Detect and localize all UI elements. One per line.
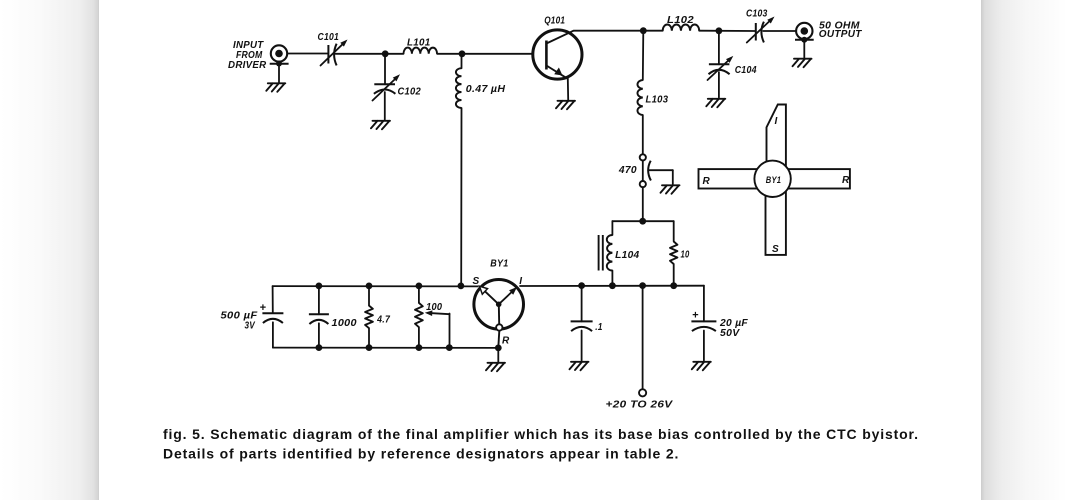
BY1 I lead arrow xyxy=(499,293,512,305)
wire to 1000 cap xyxy=(318,286,320,314)
junction bus .1 cap xyxy=(578,282,585,289)
wire node down to C102 xyxy=(384,54,386,85)
terminal +20 TO 26V xyxy=(639,389,646,396)
capacitor 470 feedthrough xyxy=(640,154,646,160)
wire bias bottom bus xyxy=(273,347,498,349)
resistor 4.7 xyxy=(365,306,373,329)
arrow of C102 xyxy=(373,80,395,101)
wire R10 bottom xyxy=(673,264,675,286)
BY1 R lead xyxy=(498,304,500,324)
wire C103 to output jack xyxy=(763,30,796,32)
svg-text:C104: C104 xyxy=(735,65,757,76)
wire L102 to C103 xyxy=(699,30,755,32)
wire wiper to bottom bus xyxy=(449,314,451,348)
svg-text:DRIVER: DRIVER xyxy=(228,60,267,71)
wire choke to bias bus xyxy=(460,108,462,286)
junction node C102 tap xyxy=(382,50,389,57)
inductor 0.47 uH choke xyxy=(456,68,462,108)
wire R4.7 to bottom bus xyxy=(368,328,370,347)
junction bus +20V feed xyxy=(639,282,646,289)
svg-text:I: I xyxy=(774,116,777,127)
arrow of C104 xyxy=(708,61,728,80)
svg-text:+: + xyxy=(260,302,267,314)
svg-text:I: I xyxy=(519,276,522,287)
capacitor .1 xyxy=(571,320,593,322)
junction 1000 top xyxy=(316,283,323,290)
junction bus R10 xyxy=(670,282,677,289)
junction 100 top xyxy=(416,283,423,290)
svg-text:C103: C103 xyxy=(746,9,768,20)
BY1 package: top lead tab (I) xyxy=(767,105,786,181)
BY1 package: horizontal bar (R leads) xyxy=(699,169,850,188)
ground C470 xyxy=(661,185,680,194)
connector J1 input coax jack xyxy=(271,45,287,61)
inductor L104 xyxy=(607,235,613,271)
svg-text:C101: C101 xyxy=(318,32,340,43)
L104 core bars xyxy=(598,235,600,271)
junction node E xyxy=(639,218,646,225)
svg-text:R: R xyxy=(842,175,850,186)
BY1 S lead xyxy=(481,288,499,305)
svg-text:0.47 µH: 0.47 µH xyxy=(466,84,506,95)
wire node C down to L103 xyxy=(642,31,645,80)
junction BY1 R to bus xyxy=(495,345,502,352)
junction 100 bottom xyxy=(416,344,423,351)
resistor 100 (variable) xyxy=(415,303,423,327)
svg-text:4.7: 4.7 xyxy=(376,315,390,326)
wire 1000 to bottom bus xyxy=(318,323,320,347)
wire L103 to C470 xyxy=(642,115,644,155)
inductor L103 xyxy=(637,80,642,115)
wire node B to Q101 base xyxy=(462,53,533,55)
ground input jack xyxy=(266,83,285,92)
junction 1000 bottom xyxy=(316,344,323,351)
svg-text:1000: 1000 xyxy=(332,318,357,329)
resistor 10 xyxy=(670,242,677,265)
junction bus L104 xyxy=(609,282,616,289)
svg-text:+: + xyxy=(692,310,699,322)
Q101 emitter arrow xyxy=(546,66,567,79)
svg-text:S: S xyxy=(473,276,480,287)
wire R lead to ground xyxy=(497,348,499,362)
ground C.1 xyxy=(570,362,589,371)
svg-text:fig. 5. Schematic diagram of t: fig. 5. Schematic diagram of the final a… xyxy=(163,426,919,442)
ground C102 xyxy=(371,121,390,130)
svg-text:Details of parts identified by: Details of parts identified by reference… xyxy=(163,446,679,462)
transistor Q101 xyxy=(533,30,582,79)
ground Q101 emitter xyxy=(556,101,575,110)
ground C20uF xyxy=(692,362,711,371)
wire to R100 xyxy=(418,286,420,303)
wire C104 to ground xyxy=(718,72,720,98)
wire C20uF to ground xyxy=(703,331,705,361)
wire C470 to node E xyxy=(642,187,644,221)
BY1 package: bottom lead tab (S) xyxy=(766,178,786,255)
ground BY1 R xyxy=(486,363,505,372)
svg-text:BY1: BY1 xyxy=(766,175,781,185)
svg-text:3V: 3V xyxy=(245,321,256,332)
wire node D down to C104 xyxy=(718,31,720,65)
wire bus corner to C20uF xyxy=(703,286,705,322)
junction 4.7 top xyxy=(366,283,373,290)
svg-text:Q101: Q101 xyxy=(544,16,565,27)
capacitor C104 (variable) xyxy=(709,63,730,65)
junction node C (collector line) xyxy=(640,27,647,34)
junction wiper bottom xyxy=(446,344,453,351)
wire to R4.7 xyxy=(368,286,370,306)
svg-text:100: 100 xyxy=(426,302,442,313)
ground output jack xyxy=(793,59,812,67)
wire bias top bus xyxy=(273,285,478,287)
svg-text:+20 TO 26V: +20 TO 26V xyxy=(606,399,674,410)
capacitor 20uF plates xyxy=(691,320,716,322)
wire collector to L102 xyxy=(574,30,663,32)
wire C102 to ground xyxy=(384,92,386,120)
svg-text:R: R xyxy=(502,336,510,347)
arrow wiper R100 xyxy=(432,313,449,314)
BY1 package: body circle xyxy=(754,161,790,197)
wire to 500uF xyxy=(272,286,274,312)
inductor L102 xyxy=(663,24,700,30)
wire bus to C.1 xyxy=(581,286,583,322)
svg-text:R: R xyxy=(703,176,711,187)
svg-text:470: 470 xyxy=(618,165,637,176)
svg-text:10: 10 xyxy=(681,249,690,260)
wire L104 bottom xyxy=(611,271,613,286)
wire C.1 to ground xyxy=(581,331,583,361)
wire bus to +20V terminal xyxy=(642,286,644,390)
svg-text:50V: 50V xyxy=(720,328,741,339)
capacitor C103 (variable) xyxy=(755,23,757,41)
capacitor C102 (variable) xyxy=(374,83,395,85)
wire 500uF to bottom bus xyxy=(272,322,274,347)
svg-text:L104: L104 xyxy=(615,250,640,261)
inductor L101 xyxy=(404,48,438,54)
svg-text:L103: L103 xyxy=(646,94,669,105)
svg-text:OUTPUT: OUTPUT xyxy=(819,29,862,40)
arrow of C101 xyxy=(321,45,343,66)
wire emitter to ground xyxy=(567,79,569,100)
junction node D xyxy=(716,27,723,34)
byistor BY1 symbol xyxy=(474,280,524,330)
wire to R10 top xyxy=(673,221,675,241)
wire down to ground xyxy=(672,170,674,184)
wire jack to C101 xyxy=(287,53,327,55)
wire R100 to bottom bus xyxy=(418,327,420,347)
junction choke to bus xyxy=(458,283,465,290)
capacitor 500uF plates xyxy=(262,312,283,314)
junction 4.7 bottom xyxy=(366,344,373,351)
svg-text:L102: L102 xyxy=(667,15,694,26)
svg-text:L101: L101 xyxy=(407,38,431,49)
wire connector to ground xyxy=(278,65,280,84)
svg-text:BY1: BY1 xyxy=(490,258,508,269)
capacitor 1000 xyxy=(309,313,329,315)
svg-text:.1: .1 xyxy=(595,322,603,333)
capacitor C101 (variable) xyxy=(327,45,329,64)
wire tank top rail xyxy=(612,220,673,222)
svg-text:S: S xyxy=(772,244,779,255)
svg-text:C102: C102 xyxy=(398,86,422,97)
wire node B down xyxy=(461,54,463,68)
connector J2 output coax jack xyxy=(796,23,812,39)
wire jack2 to ground xyxy=(803,41,805,59)
BY1 center dot xyxy=(496,302,502,308)
junction node B xyxy=(459,50,466,57)
wire to L104 top xyxy=(611,221,613,235)
wire C470 plate to ground xyxy=(650,169,673,171)
ground C104 xyxy=(706,99,725,108)
wire main bus right segment xyxy=(520,285,704,287)
wire L101 to node B xyxy=(437,53,462,55)
arrow of C103 xyxy=(747,22,769,43)
wire C101 to node xyxy=(335,53,403,55)
